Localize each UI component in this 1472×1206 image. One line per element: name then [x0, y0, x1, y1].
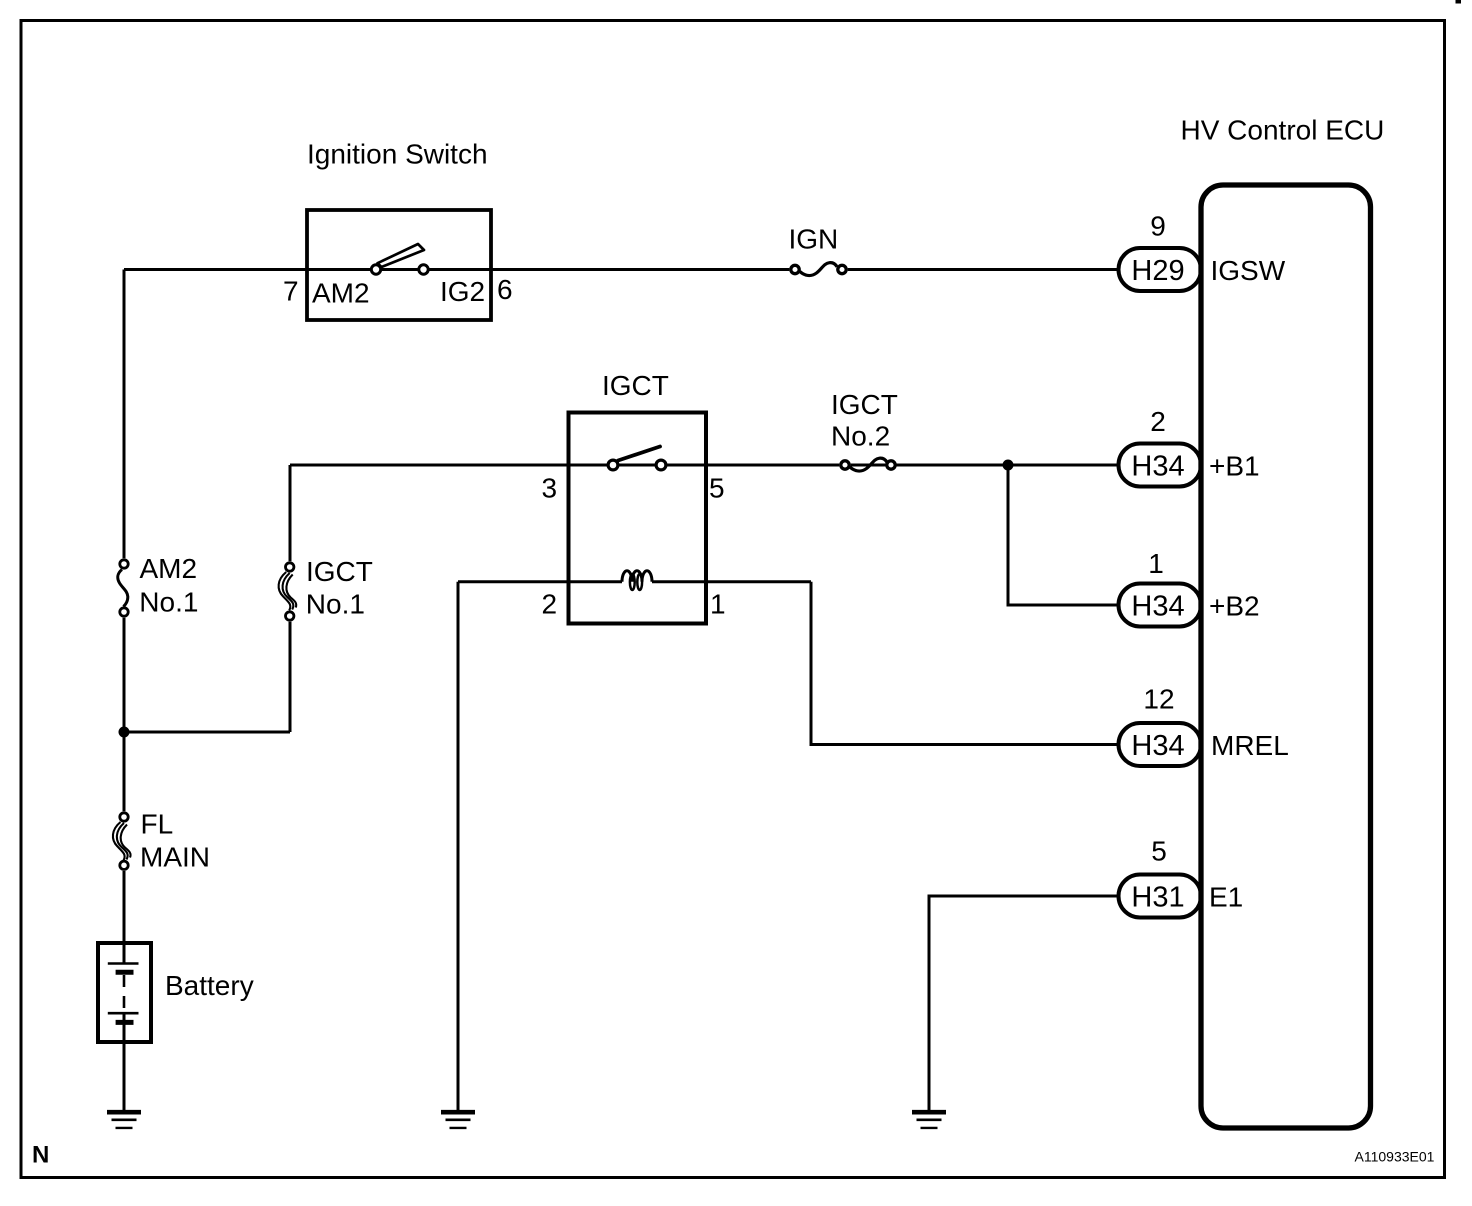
svg-text:2: 2 [1150, 406, 1166, 437]
svg-text:MREL: MREL [1211, 730, 1289, 761]
svg-text:6: 6 [497, 274, 513, 305]
svg-text:IGCT: IGCT [306, 556, 373, 587]
svg-text:5: 5 [1151, 836, 1167, 867]
svg-text:IGCT: IGCT [602, 370, 669, 401]
svg-text:IGN: IGN [789, 224, 839, 255]
svg-text:5: 5 [709, 473, 725, 504]
svg-text:AM2: AM2 [312, 278, 370, 309]
svg-text:A110933E01: A110933E01 [1355, 1149, 1435, 1165]
svg-text:H29: H29 [1131, 255, 1184, 287]
svg-text:No.1: No.1 [139, 587, 198, 618]
svg-text:Battery: Battery [165, 970, 254, 1001]
svg-text:H34: H34 [1131, 591, 1184, 623]
svg-text:Ignition Switch: Ignition Switch [307, 139, 488, 170]
svg-text:+B2: +B2 [1209, 591, 1260, 622]
svg-text:3: 3 [542, 473, 558, 504]
svg-text:N: N [32, 1142, 49, 1169]
svg-text:1: 1 [710, 589, 726, 620]
svg-text:No.2: No.2 [831, 421, 890, 452]
svg-text:H31: H31 [1131, 882, 1184, 914]
svg-text:H34: H34 [1131, 451, 1184, 483]
svg-text:7: 7 [283, 276, 299, 307]
svg-text:12: 12 [1143, 684, 1174, 715]
svg-text:MAIN: MAIN [140, 842, 210, 873]
svg-text:2: 2 [542, 589, 558, 620]
svg-text:+B1: +B1 [1209, 451, 1260, 482]
svg-text:HV Control ECU: HV Control ECU [1181, 115, 1385, 146]
svg-text:AM2: AM2 [140, 553, 198, 584]
svg-text:IGCT: IGCT [831, 389, 898, 420]
svg-text:IG2: IG2 [440, 276, 485, 307]
svg-text:9: 9 [1150, 211, 1166, 242]
svg-text:No.1: No.1 [306, 589, 365, 620]
svg-text:1: 1 [1148, 548, 1164, 579]
svg-text:IGSW: IGSW [1211, 255, 1286, 286]
svg-text:E1: E1 [1209, 882, 1243, 913]
svg-text:H34: H34 [1131, 730, 1184, 762]
svg-text:FL: FL [141, 809, 174, 840]
